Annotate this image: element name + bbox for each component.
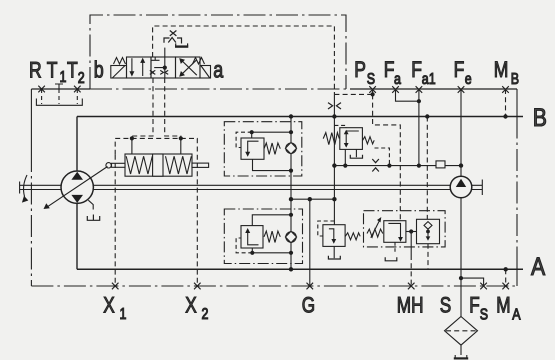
pump case drain curve bbox=[88, 200, 93, 209]
node Fa port x-mark bbox=[392, 86, 399, 93]
wire: pump to A line bbox=[76, 203, 78, 269]
svg-text:T: T bbox=[67, 58, 78, 83]
check valve B circle bbox=[286, 143, 296, 153]
svg-text:M: M bbox=[494, 58, 509, 83]
node X1 port x-mark bbox=[112, 283, 119, 290]
valve A relief arrow bbox=[248, 231, 259, 245]
wire: B relief pilot dashed bbox=[236, 132, 252, 147]
wire: feed line to aux pump bbox=[334, 165, 460, 167]
node R port x-mark bbox=[38, 86, 45, 93]
svg-text:M: M bbox=[496, 294, 510, 319]
node dot link bbox=[409, 229, 413, 233]
wire: pilot line a-side down to cylinder bbox=[165, 78, 181, 138]
wire: MA dashed bbox=[505, 269, 507, 286]
node G port x-mark bbox=[307, 283, 314, 290]
block control chain frame bbox=[364, 211, 446, 247]
svg-text:X: X bbox=[103, 294, 114, 319]
wire: G port line bbox=[309, 199, 311, 286]
shaft double line right to aux pump bbox=[93, 185, 450, 189]
wire: unit boundary right border solid bottom bbox=[516, 255, 518, 286]
solenoid a bbox=[200, 66, 211, 79]
svg-text:F: F bbox=[469, 294, 479, 319]
wire: unit boundary bottom chain line bbox=[31, 285, 517, 287]
node dot pilot feed at feed line bbox=[332, 163, 336, 167]
wire: vent line to valve bbox=[164, 48, 166, 57]
node dot A relief bottom stub bbox=[250, 251, 254, 255]
aux pump triangle bbox=[456, 179, 466, 187]
svg-text:A: A bbox=[531, 252, 546, 280]
svg-text:S: S bbox=[367, 71, 375, 89]
svg-text:T: T bbox=[47, 58, 58, 83]
valve B relief arrow bbox=[248, 141, 259, 153]
block B relief chain frame bbox=[224, 122, 301, 176]
wire: unit boundary right border solid top bbox=[516, 89, 518, 117]
node T1 plugged port bbox=[55, 84, 63, 89]
wire: A relief top to service line bbox=[252, 215, 291, 226]
shaft rotation arrow bbox=[24, 175, 27, 197]
wire: B work line bbox=[77, 116, 523, 118]
valve boost relief square bbox=[323, 225, 345, 247]
node dot MB on B bbox=[503, 114, 507, 118]
node dot A relief top bbox=[289, 213, 293, 217]
svg-text:e: e bbox=[465, 71, 472, 89]
cylinder piston bbox=[153, 154, 163, 176]
actuator stroking cylinder body bbox=[125, 154, 192, 176]
wire: dots to cylinder chambers bbox=[132, 138, 181, 154]
node dot junction right bbox=[332, 197, 336, 201]
node dot Fa1 bbox=[417, 99, 421, 103]
shaft double line left bbox=[20, 185, 61, 189]
svg-text:X: X bbox=[185, 294, 196, 319]
valve proportional arrow bbox=[388, 223, 400, 239]
node cylinder pilot dot left bbox=[130, 136, 134, 140]
spring DR right bbox=[363, 137, 375, 144]
wire: S to FS elbow bbox=[461, 278, 484, 286]
node PS port x-mark bbox=[369, 86, 376, 93]
svg-text:S: S bbox=[440, 294, 451, 319]
wire: B to check dashed bbox=[426, 117, 428, 220]
valve A relief square bbox=[241, 226, 263, 248]
wire: PS pilot dashed to proportional valve bbox=[373, 94, 401, 220]
wire: link proportional to check bbox=[406, 231, 417, 233]
node rod end pivot circle bbox=[106, 163, 111, 168]
wire: MH line dashed part bbox=[410, 255, 412, 286]
wire: X1 dashed control line bbox=[114, 155, 116, 286]
wire: check element to A dashed bbox=[427, 244, 429, 270]
wire: aux pump suction down bbox=[460, 198, 462, 317]
node dot junction G bbox=[308, 197, 312, 201]
valve DR arrow bbox=[346, 131, 359, 147]
spring left in cylinder bbox=[126, 156, 152, 174]
check element diamond bbox=[424, 222, 432, 230]
wire: MH line solid part bbox=[410, 232, 412, 256]
wire: pilot sub-enclosure chain border bbox=[90, 15, 346, 89]
node dot relief outlet bbox=[289, 169, 293, 173]
svg-text:F: F bbox=[411, 58, 422, 83]
wire: A work line bbox=[77, 268, 523, 270]
spring proportional adjustable bbox=[367, 229, 383, 237]
svg-text:a: a bbox=[213, 58, 223, 84]
spring A relief bbox=[264, 231, 280, 242]
wire: X2 dashed control line bbox=[196, 155, 198, 286]
svg-text:2: 2 bbox=[202, 306, 209, 324]
wire: PS stub bbox=[372, 89, 374, 94]
wire: boost relief drain stub bbox=[333, 246, 335, 258]
pump flow triangle down bbox=[71, 195, 83, 203]
node MH port x-mark bbox=[408, 283, 415, 290]
DR drain symbol bbox=[350, 155, 362, 159]
wire: boost relief pilot dashed bbox=[318, 221, 335, 236]
wire: A relief bottom bbox=[252, 248, 291, 253]
filter diamond bbox=[445, 317, 478, 346]
spring B relief bbox=[264, 143, 280, 154]
proportional drain symbol bbox=[385, 257, 397, 261]
node dot relief line top bbox=[289, 130, 293, 134]
wire: R T1 T2 dashed stubs to gallery bbox=[42, 89, 78, 104]
wire: DR pilot from B dashed bbox=[334, 125, 346, 127]
valve boost relief arrow bbox=[329, 229, 334, 242]
svg-text:MH: MH bbox=[397, 294, 424, 319]
wire: Fe line down bbox=[460, 89, 462, 166]
wire: junction line to G bbox=[291, 198, 334, 200]
node Fe port x-mark bbox=[458, 86, 465, 93]
node dot DR right pilot bbox=[387, 164, 391, 168]
check valve A diamond bbox=[285, 231, 296, 243]
wire: dashed pilot control rectangle top bbox=[153, 26, 335, 94]
wire: aux pump top port bbox=[460, 166, 462, 177]
wire: PS jog dashed bbox=[334, 93, 372, 95]
pump flow triangle up bbox=[71, 172, 83, 180]
wire: MB dashed line bbox=[505, 89, 507, 117]
valve center position blocked ports bbox=[151, 57, 165, 68]
svg-text:b: b bbox=[94, 58, 104, 84]
pump auxiliary boost circle bbox=[450, 176, 472, 198]
wire: unit boundary top chain line bbox=[90, 88, 350, 90]
node X2 port x-mark bbox=[194, 283, 201, 290]
plugged vent symbol above pilot valve bbox=[170, 31, 177, 36]
pump main variable displacement circle bbox=[61, 171, 93, 203]
node dot Fa1 feed junction bbox=[417, 164, 421, 168]
wire: Fa Fa1 connector bbox=[396, 89, 419, 101]
tank symbol bbox=[455, 355, 467, 358]
node pilot valve center junction dot bbox=[164, 57, 166, 78]
svg-text:a: a bbox=[394, 71, 401, 89]
wire: DR right pilot dashed bbox=[375, 148, 390, 166]
wire: Fa1 line down to feed line bbox=[418, 101, 420, 165]
solenoid b bbox=[111, 66, 127, 79]
wire: B relief outlet bbox=[253, 159, 292, 170]
svg-text:a1: a1 bbox=[422, 71, 436, 89]
valve position 3 crossed arrows bbox=[181, 60, 197, 75]
valve check element square bbox=[417, 219, 440, 243]
node dot relief inlet bbox=[250, 130, 254, 134]
node dot B junction bbox=[289, 114, 293, 118]
pump case drain symbol bbox=[87, 215, 99, 221]
wire: DR outlet down bbox=[344, 149, 346, 165]
valve 4/3 pilot valve body boxes bbox=[127, 57, 152, 78]
arrow through spring bbox=[371, 220, 380, 238]
wire: cylinder dashed control box bbox=[115, 138, 197, 154]
spring boost relief bbox=[345, 233, 360, 240]
wire: R T1 T2 common gallery bracket bbox=[36, 99, 82, 106]
orifice square on feed line bbox=[436, 161, 445, 168]
svg-text:F: F bbox=[454, 58, 465, 83]
svg-text:S: S bbox=[480, 306, 488, 324]
wire: unit boundary right border chain bbox=[516, 117, 518, 256]
valve proportional square bbox=[384, 221, 406, 243]
boost relief drain symbol bbox=[328, 256, 340, 259]
node dot A relief bottom line bbox=[289, 251, 293, 255]
wire: unit boundary top line right segment bbox=[350, 88, 517, 90]
node dot Fe feed junction bbox=[459, 163, 463, 167]
wire: left body line B to pump bbox=[76, 117, 78, 172]
shaft end bar bbox=[19, 182, 21, 194]
cylinder rod left bbox=[112, 163, 126, 167]
node T2 port x-mark bbox=[74, 86, 81, 93]
svg-text:G: G bbox=[302, 294, 315, 319]
check valve A circle bbox=[286, 232, 296, 242]
block A relief chain frame bbox=[224, 209, 302, 264]
node MB port x-mark bbox=[502, 86, 509, 93]
wire: main vertical service line bbox=[290, 117, 292, 270]
node dot MA on A bbox=[504, 267, 508, 271]
node dot DR outlet bbox=[343, 164, 347, 168]
svg-text:1: 1 bbox=[60, 69, 67, 87]
node MA port x-mark bbox=[502, 283, 509, 290]
plugged orifice chevron bbox=[372, 168, 379, 172]
svg-text:B: B bbox=[533, 103, 547, 131]
spring over solenoid a bbox=[193, 58, 205, 65]
node dot A junction bbox=[289, 267, 293, 271]
node dot B check junction bbox=[425, 114, 429, 118]
wire: A relief pilot dashed bbox=[236, 238, 252, 253]
pump variable displacement arrow bbox=[47, 167, 108, 208]
valve position 1 arrows bbox=[131, 58, 133, 73]
svg-text:2: 2 bbox=[78, 69, 85, 87]
spring over solenoid b bbox=[114, 58, 126, 65]
svg-text:P: P bbox=[354, 58, 366, 83]
wire: DR drain stub bbox=[355, 149, 357, 157]
spring right in cylinder bbox=[166, 156, 192, 174]
node dot junction left bbox=[289, 197, 293, 201]
valve boost relief stub bbox=[333, 199, 335, 225]
node dot S elbow bbox=[459, 276, 463, 280]
valve B relief square bbox=[241, 138, 264, 159]
wire: unit boundary left border bbox=[30, 89, 32, 150]
filter element dashed bbox=[446, 330, 476, 332]
valve DR pressure control square bbox=[340, 128, 363, 150]
svg-text:1: 1 bbox=[120, 306, 127, 324]
svg-text:B: B bbox=[511, 71, 519, 89]
orifice symbol on pilot feed bbox=[328, 103, 341, 109]
node Fa1 port x-mark bbox=[416, 86, 423, 93]
node FS port x-mark bbox=[480, 283, 487, 290]
svg-text:A: A bbox=[512, 306, 521, 324]
wire: pilot feed vertical bbox=[333, 94, 335, 199]
svg-text:F: F bbox=[384, 58, 395, 83]
plugged orifice x-mark on feed line bbox=[372, 159, 379, 163]
wire: filter to tank bbox=[460, 345, 462, 355]
check element arrow bbox=[427, 229, 429, 238]
node cylinder pilot dot right bbox=[179, 136, 183, 140]
wire: B relief inlet bbox=[252, 132, 291, 138]
node dot pilot feed B junction bbox=[332, 114, 336, 118]
node check element dot bbox=[426, 230, 430, 234]
wire: pilot line b-side down to cylinder bbox=[132, 78, 153, 138]
shaft aux right stub bbox=[472, 180, 483, 196]
check valve B diamond bbox=[285, 142, 296, 154]
node dot PS bbox=[371, 92, 375, 96]
wire: proportional drain dashed bbox=[394, 242, 396, 252]
cylinder rod right bbox=[192, 163, 209, 167]
wire: unit boundary top port line (solid R-T2 segment) bbox=[31, 88, 90, 90]
spring DR left bbox=[323, 133, 339, 145]
svg-text:R: R bbox=[29, 58, 42, 83]
